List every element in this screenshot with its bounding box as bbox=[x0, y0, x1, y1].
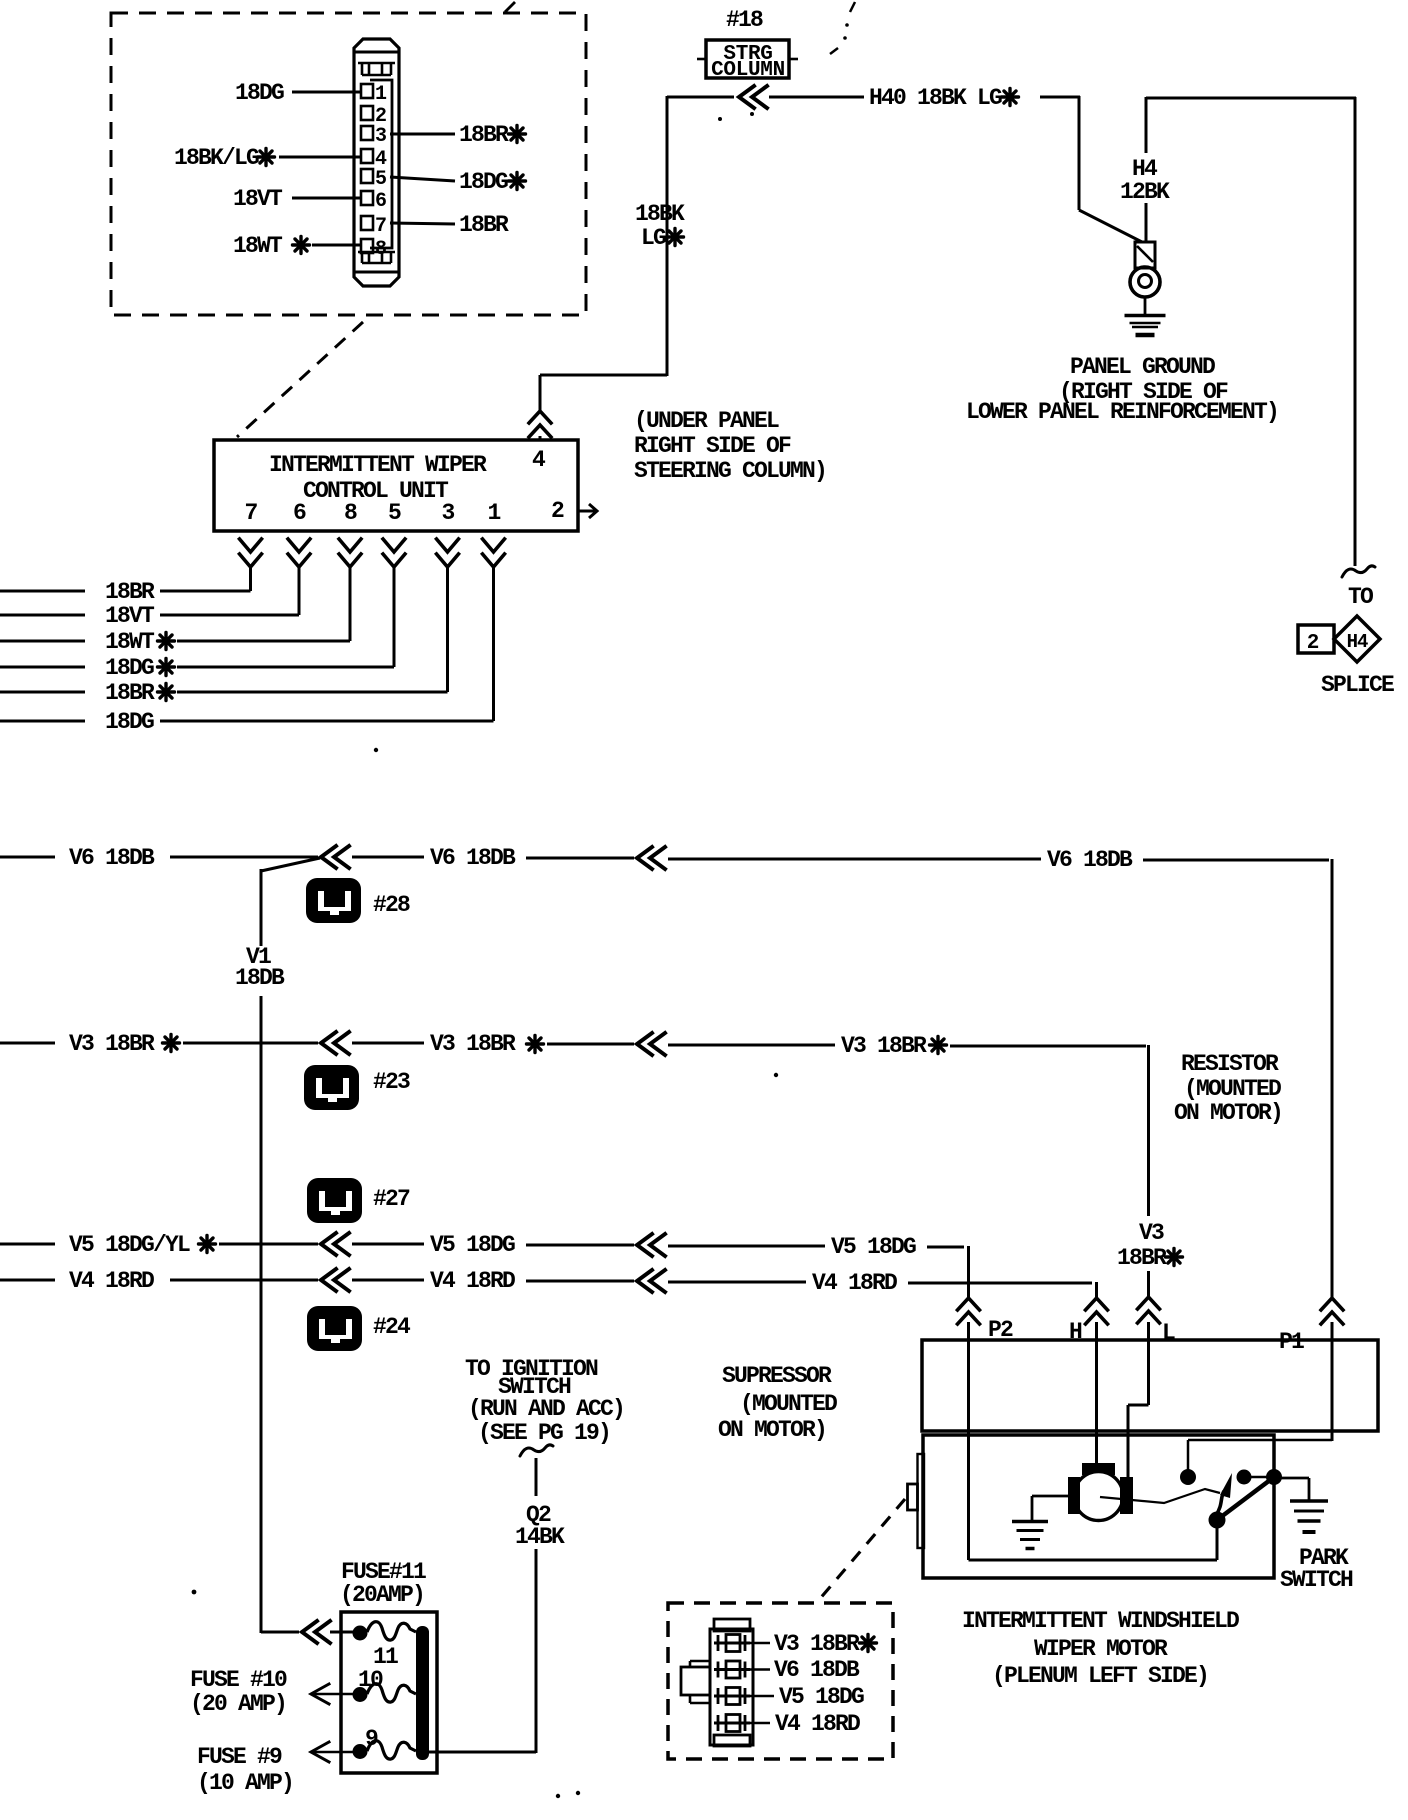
svg-text:6: 6 bbox=[293, 500, 306, 526]
svg-text:H: H bbox=[1069, 1319, 1082, 1345]
svg-text:8: 8 bbox=[344, 500, 357, 526]
svg-text:COLUMN: COLUMN bbox=[711, 59, 785, 82]
svg-text:V3 18BR: V3 18BR bbox=[69, 1031, 155, 1057]
svg-text:2: 2 bbox=[1307, 632, 1320, 655]
svg-text:ON MOTOR): ON MOTOR) bbox=[1174, 1100, 1282, 1126]
svg-text:SUPRESSOR: SUPRESSOR bbox=[722, 1363, 832, 1389]
wire H4 12BK upper segment bbox=[1145, 97, 1148, 153]
svg-text:CONTROL UNIT: CONTROL UNIT bbox=[303, 478, 449, 504]
dashed detail box (steering column connector #18 pinout) bbox=[111, 13, 586, 315]
park switch moving arm with tip bbox=[1216, 1473, 1232, 1515]
park switch arm D-C bbox=[1217, 1477, 1274, 1520]
svg-text:V5 18DG: V5 18DG bbox=[831, 1234, 916, 1260]
wire 18VT from pin bbox=[0, 568, 299, 629]
dashed pointer line from detail box to control unit bbox=[237, 322, 363, 437]
wire label Q2 14BK bbox=[515, 1502, 565, 1550]
wire V3 18BR* to terminal L bbox=[1147, 1271, 1150, 1299]
fuse block bus bar bbox=[416, 1626, 429, 1760]
label RESISTOR (MOUNTED ON MOTOR) bbox=[1174, 1051, 1282, 1126]
park switch pivot D bbox=[1209, 1512, 1226, 1529]
connector chevron on wire H40 bbox=[739, 86, 767, 108]
wire V1 18DB vertical bbox=[260, 996, 263, 1633]
wire 18WT* to pin 8 bbox=[233, 233, 362, 259]
svg-text:INTERMITTENT WIPER: INTERMITTENT WIPER bbox=[269, 452, 487, 478]
svg-text:1: 1 bbox=[375, 83, 387, 106]
fuse block box bbox=[341, 1612, 437, 1773]
label FUSE#11 (20AMP) bbox=[340, 1559, 426, 1608]
svg-text:V3: V3 bbox=[1139, 1220, 1164, 1246]
wire V3 18BR row bbox=[0, 1031, 1146, 1059]
park switch contact A bbox=[1180, 1469, 1196, 1485]
svg-text:(20 AMP): (20 AMP) bbox=[190, 1691, 286, 1717]
motor armature bbox=[1074, 1472, 1123, 1521]
wire L inside motor bbox=[1128, 1322, 1149, 1478]
svg-text:4: 4 bbox=[532, 447, 546, 473]
label FUSE #9 (10 AMP) bbox=[197, 1744, 293, 1796]
park switch linkage (thin line from armature) bbox=[1100, 1489, 1220, 1503]
terminal chevron P1 bbox=[1321, 1298, 1343, 1324]
svg-text:V6 18DB: V6 18DB bbox=[774, 1657, 860, 1683]
wire 18BK/LG* to pin 4 bbox=[174, 145, 362, 171]
svg-text:5: 5 bbox=[388, 500, 401, 526]
wire V4 18RD row bbox=[0, 1268, 1092, 1296]
pin wire V6 18DB bbox=[750, 1657, 860, 1683]
wire 18DG from pin bbox=[0, 568, 494, 735]
pin wire V4 18RD bbox=[750, 1711, 860, 1737]
svg-text:7: 7 bbox=[244, 500, 257, 526]
svg-text:1: 1 bbox=[487, 500, 500, 526]
park switch contact B-C link bbox=[1244, 1476, 1274, 1479]
svg-text:18WT: 18WT bbox=[105, 629, 155, 655]
wire V1 to fuse 11 bbox=[261, 1631, 354, 1634]
svg-text:(MOUNTED: (MOUNTED bbox=[1184, 1076, 1281, 1102]
wire 18DG* from pin bbox=[0, 568, 394, 681]
svg-text:#24: #24 bbox=[373, 1314, 411, 1340]
svg-text:2: 2 bbox=[551, 498, 564, 524]
svg-text:V4 18RD: V4 18RD bbox=[430, 1268, 515, 1294]
svg-text:FUSE #9: FUSE #9 bbox=[197, 1744, 282, 1770]
svg-text:V4 18RD: V4 18RD bbox=[775, 1711, 860, 1737]
intermittent wiper control unit box bbox=[214, 440, 578, 531]
svg-text:SPLICE: SPLICE bbox=[1321, 672, 1394, 698]
scan speck marks bbox=[192, 2, 855, 1798]
svg-text:V6 18DB: V6 18DB bbox=[430, 845, 516, 871]
steering column connector box STRG COLUMN bbox=[697, 40, 798, 82]
wire Q2 14BK vertical bbox=[535, 1549, 538, 1753]
label PARK SWITCH bbox=[1280, 1545, 1353, 1593]
pin wire V3 18BR* bbox=[750, 1631, 877, 1657]
label INTERMITTENT WINDSHIELD WIPER MOTOR (PLENUM LEFT SIDE) bbox=[962, 1608, 1239, 1689]
connector icon #24 bbox=[307, 1306, 362, 1351]
svg-text:18BR: 18BR bbox=[459, 122, 509, 148]
break squiggle on ignition wire bbox=[520, 1445, 553, 1456]
fuse 9 element bbox=[353, 1741, 417, 1759]
svg-text:#28: #28 bbox=[373, 892, 410, 918]
fuse 9 output arrow bbox=[311, 1742, 353, 1762]
svg-text:V5 18DG/YL: V5 18DG/YL bbox=[69, 1232, 190, 1258]
connector chevron on V1 at fuse block bbox=[302, 1621, 330, 1643]
svg-text:18DG: 18DG bbox=[235, 80, 284, 106]
svg-text:RESISTOR: RESISTOR bbox=[1181, 1051, 1279, 1077]
svg-text:SWITCH: SWITCH bbox=[1280, 1567, 1353, 1593]
svg-text:V3 18BR: V3 18BR bbox=[774, 1631, 860, 1657]
fuse 10 element bbox=[353, 1684, 417, 1702]
dashed pointer to motor connector detail bbox=[818, 1499, 905, 1601]
svg-text:18DG: 18DG bbox=[105, 655, 154, 681]
svg-text:(RUN AND ACC): (RUN AND ACC) bbox=[468, 1396, 624, 1422]
terminal chevron H bbox=[1086, 1298, 1108, 1324]
svg-text:INTERMITTENT WINDSHIELD: INTERMITTENT WINDSHIELD bbox=[962, 1608, 1239, 1634]
svg-text:PANEL GROUND: PANEL GROUND bbox=[1070, 354, 1215, 380]
suppressor box bbox=[922, 1340, 1378, 1431]
svg-text:(UNDER PANEL: (UNDER PANEL bbox=[634, 408, 779, 434]
svg-text:V3 18BR: V3 18BR bbox=[841, 1033, 927, 1059]
wire to splice H4 (right drop) bbox=[1354, 97, 1357, 566]
wire 18DG* from pin 5 bbox=[390, 169, 526, 195]
svg-text:#27: #27 bbox=[373, 1186, 410, 1212]
wire V5 18DG corner down to P2 bbox=[967, 1246, 970, 1299]
svg-text:V6 18DB: V6 18DB bbox=[1047, 847, 1133, 873]
svg-text:18DB: 18DB bbox=[235, 965, 285, 991]
note TO IGNITION SWITCH (RUN AND ACC) (SEE PG 19) bbox=[465, 1356, 624, 1446]
wire Q2 to fuse 9 bbox=[429, 1751, 536, 1754]
svg-text:RIGHT SIDE OF: RIGHT SIDE OF bbox=[634, 433, 791, 459]
svg-text:V3 18BR: V3 18BR bbox=[430, 1031, 516, 1057]
splice symbol 2 H4 bbox=[1298, 616, 1380, 662]
connector chevrons at control unit pins 7 6 8 5 3 1 bbox=[240, 539, 505, 567]
svg-text:3: 3 bbox=[375, 125, 387, 148]
svg-text:LOWER PANEL REINFORCEMENT): LOWER PANEL REINFORCEMENT) bbox=[966, 399, 1278, 425]
svg-text:V4 18RD: V4 18RD bbox=[69, 1268, 154, 1294]
wire H4 12BK lower segment bbox=[1145, 203, 1148, 243]
wire 18BR from pin 7 bbox=[390, 212, 509, 238]
svg-text:18BR: 18BR bbox=[105, 680, 155, 706]
wire V6 18DB row bbox=[0, 845, 1329, 873]
svg-text:3: 3 bbox=[441, 500, 454, 526]
dashed detail box (wiper motor connector pinout) bbox=[668, 1603, 893, 1759]
wire label H40 18BK LG* bbox=[869, 85, 1019, 111]
svg-text:18BK: 18BK bbox=[635, 201, 685, 227]
svg-text:6: 6 bbox=[375, 190, 387, 213]
panel ground stem bbox=[1144, 297, 1147, 314]
connector #18 body (8-pin, steering column) bbox=[354, 39, 399, 286]
svg-text:18BR: 18BR bbox=[459, 212, 509, 238]
park switch common contact C bbox=[1266, 1469, 1282, 1485]
svg-text:FUSE #10: FUSE #10 bbox=[190, 1667, 287, 1693]
svg-text:12BK: 12BK bbox=[1120, 179, 1170, 205]
svg-text:7: 7 bbox=[375, 215, 387, 238]
pin numbers row bbox=[244, 498, 564, 526]
svg-text:LG: LG bbox=[641, 225, 666, 251]
wire 18BR from pin bbox=[0, 568, 251, 605]
wire Q2 upper segment bbox=[535, 1458, 538, 1496]
motor ground symbol bbox=[1012, 1522, 1048, 1549]
motor brush left bbox=[1068, 1477, 1080, 1514]
svg-text:18BR: 18BR bbox=[105, 579, 155, 605]
wire 18WT* from pin bbox=[0, 568, 350, 655]
wire H40 segment to label bbox=[769, 96, 864, 99]
svg-text:(20AMP): (20AMP) bbox=[340, 1582, 424, 1608]
svg-text:(SEE PG 19): (SEE PG 19) bbox=[478, 1420, 610, 1446]
pin 2 arrow bbox=[578, 504, 597, 518]
connector icon #28 bbox=[306, 878, 361, 923]
svg-text:18VT: 18VT bbox=[105, 603, 155, 629]
wire V1 18DB tap from V6 row bbox=[261, 858, 320, 946]
svg-text:5: 5 bbox=[375, 168, 387, 191]
svg-text:H40 18BK LG: H40 18BK LG bbox=[869, 85, 1002, 111]
wire H40 down-leg at left bbox=[666, 96, 669, 376]
wire P1 to park switch contact bbox=[1188, 1440, 1332, 1471]
svg-text:(MOUNTED: (MOUNTED bbox=[740, 1391, 837, 1417]
svg-text:18BR: 18BR bbox=[1117, 1245, 1167, 1271]
motor ground wire bbox=[1032, 1496, 1068, 1520]
connector icon #27 bbox=[307, 1178, 362, 1223]
wire P2 inside motor bbox=[969, 1322, 1218, 1560]
park switch ground wire bbox=[1281, 1478, 1309, 1500]
wire 18BR* from pin 3 bbox=[390, 122, 526, 148]
wire label 18BK LG* bbox=[635, 201, 685, 251]
note (UNDER PANEL RIGHT SIDE OF STEERING COLUMN) bbox=[634, 408, 826, 484]
wire H40 segment after label bbox=[1040, 96, 1080, 99]
wire 18BR* from pin bbox=[0, 568, 448, 706]
panel ground symbol bbox=[1125, 316, 1166, 336]
svg-text:TO: TO bbox=[1348, 584, 1373, 610]
wire H40 drop to fusible link bbox=[1079, 96, 1142, 242]
svg-text:18WT: 18WT bbox=[233, 233, 283, 259]
svg-text:18DG: 18DG bbox=[459, 169, 508, 195]
wire P1 inside suppressor bbox=[1331, 1322, 1334, 1441]
wire label V1 18DB bbox=[235, 944, 285, 991]
svg-text:(10 AMP): (10 AMP) bbox=[197, 1770, 293, 1796]
wire label V3 18BR* vertical bbox=[1117, 1220, 1183, 1271]
wire 18DG to pin 1 bbox=[235, 80, 362, 106]
wire V5 18DG row bbox=[0, 1232, 964, 1260]
svg-text:WIPER MOTOR: WIPER MOTOR bbox=[1034, 1636, 1168, 1662]
terminal chevron P2 bbox=[958, 1298, 980, 1324]
park switch contact B bbox=[1237, 1470, 1252, 1485]
svg-text:#18: #18 bbox=[726, 7, 763, 33]
svg-text:14BK: 14BK bbox=[515, 1524, 565, 1550]
wire V6 18DB corner down to P1 bbox=[1331, 859, 1334, 1298]
motor brush right bbox=[1120, 1477, 1133, 1514]
fuse 11 element bbox=[353, 1622, 417, 1641]
wire 18VT to pin 6 bbox=[233, 186, 362, 212]
label FUSE #10 (20 AMP) bbox=[190, 1667, 287, 1717]
label SUPRESSOR (MOUNTED ON MOTOR) bbox=[718, 1363, 837, 1443]
pin wire V5 18DG bbox=[750, 1684, 864, 1710]
motor connector tab bbox=[908, 1454, 925, 1548]
svg-text:V6 18DB: V6 18DB bbox=[69, 845, 155, 871]
svg-text:18VT: 18VT bbox=[233, 186, 283, 212]
terminal chevron L bbox=[1138, 1297, 1160, 1323]
fusible link H4 bbox=[1135, 242, 1155, 268]
svg-text:V5 18DG: V5 18DG bbox=[430, 1232, 515, 1258]
svg-text:P1: P1 bbox=[1279, 1329, 1304, 1355]
wire label H4 12BK bbox=[1120, 156, 1170, 205]
motor armature top cap bbox=[1082, 1463, 1115, 1475]
motor box bbox=[923, 1435, 1274, 1578]
svg-text:H4: H4 bbox=[1347, 631, 1368, 653]
svg-text:P2: P2 bbox=[988, 1317, 1013, 1343]
svg-text:ON MOTOR): ON MOTOR) bbox=[718, 1417, 826, 1443]
ground eyelet terminal bbox=[1130, 267, 1160, 297]
label PANEL GROUND bbox=[966, 354, 1278, 425]
break squiggle on splice wire bbox=[1342, 566, 1375, 577]
wiper motor connector body (4-pin) bbox=[681, 1619, 753, 1746]
svg-text:STEERING COLUMN): STEERING COLUMN) bbox=[634, 458, 826, 484]
park switch ground symbol bbox=[1290, 1501, 1328, 1532]
connector icon #23 bbox=[304, 1065, 359, 1110]
svg-text:V4 18RD: V4 18RD bbox=[812, 1270, 897, 1296]
svg-text:(PLENUM LEFT SIDE): (PLENUM LEFT SIDE) bbox=[992, 1663, 1208, 1689]
wire H inside motor bbox=[1095, 1322, 1098, 1466]
svg-text:#23: #23 bbox=[373, 1069, 410, 1095]
svg-text:18DG: 18DG bbox=[105, 709, 154, 735]
wire V4 18RD corner down to H bbox=[1095, 1282, 1098, 1299]
wire to control unit pin 4 bbox=[540, 375, 667, 411]
wire V3 18BR* corner down (resistor lead) bbox=[1147, 1045, 1150, 1216]
wire to splice H4 (top run) bbox=[1146, 97, 1356, 100]
svg-text:8: 8 bbox=[375, 238, 387, 261]
svg-text:18BK/LG: 18BK/LG bbox=[174, 145, 259, 171]
connector chevron at control unit pin 4 bbox=[529, 411, 551, 437]
svg-text:V5 18DG: V5 18DG bbox=[779, 1684, 864, 1710]
wire H40 from steering column (left segment) bbox=[667, 96, 734, 99]
fuse 10 output arrow bbox=[311, 1684, 353, 1704]
svg-text:L: L bbox=[1162, 1320, 1175, 1346]
